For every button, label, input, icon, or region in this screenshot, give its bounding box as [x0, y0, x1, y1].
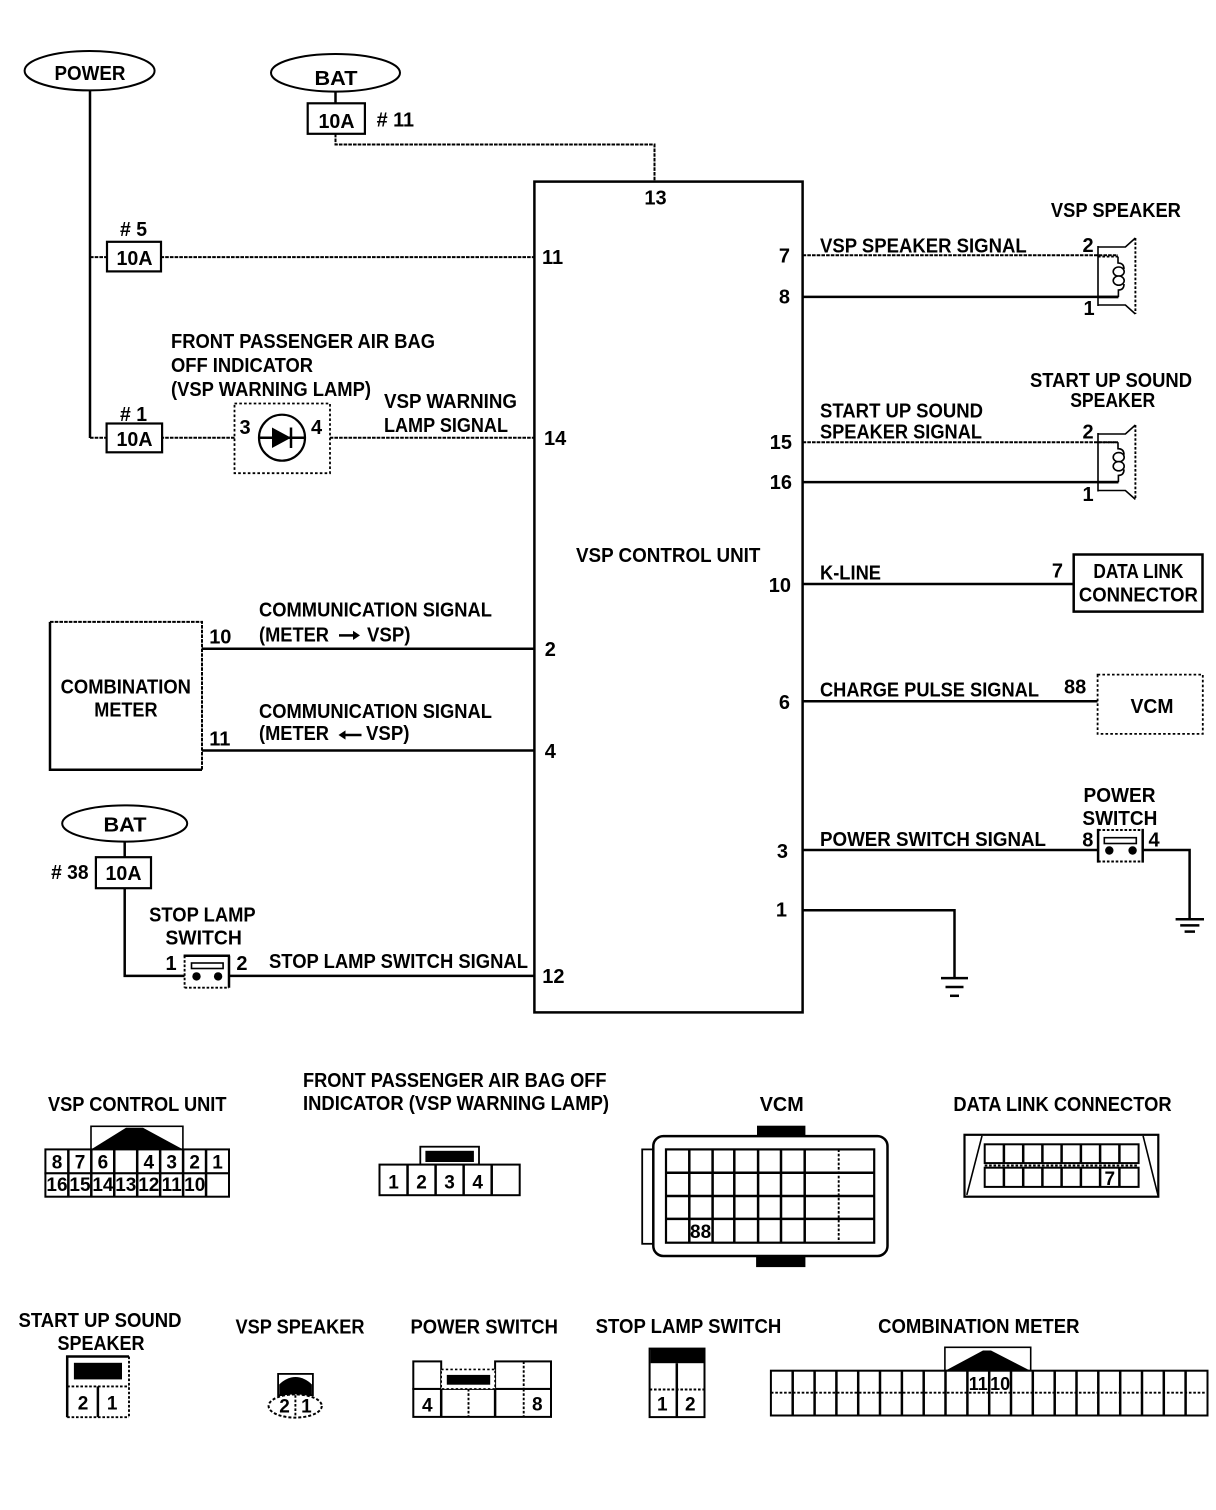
label FRONT PASSENGER AIR BAG OFF INDICATOR [171, 331, 435, 401]
svg-text:12: 12 [542, 966, 564, 988]
label STOP LAMP SWITCH [149, 905, 256, 950]
svg-text:12: 12 [138, 1175, 159, 1196]
svg-text:1: 1 [1083, 298, 1094, 320]
svg-text:10: 10 [990, 1374, 1010, 1394]
pin numbers of start up speaker connector [78, 1394, 118, 1415]
svg-text:10A: 10A [117, 248, 153, 270]
svg-text:DATA LINK CONNECTOR: DATA LINK CONNECTOR [953, 1094, 1172, 1116]
wire BAT to fuse #11 [334, 92, 337, 104]
svg-text:FRONT PASSENGER AIR BAG: FRONT PASSENGER AIR BAG [171, 331, 435, 353]
svg-text:VSP WARNING: VSP WARNING [384, 391, 517, 413]
svg-text:1: 1 [1082, 484, 1093, 506]
svg-text:POWER: POWER [55, 63, 127, 85]
pin numbers of power switch connector [422, 1395, 543, 1417]
svg-text:CONNECTOR: CONNECTOR [1079, 585, 1199, 607]
wire stop lamp switch signal [229, 975, 534, 978]
svg-text:1: 1 [165, 953, 176, 975]
svg-text:6: 6 [779, 692, 790, 714]
label COMMUNICATION SIGNAL (METER from VSP) [259, 701, 492, 745]
fuse #11 10A [308, 103, 365, 134]
wire pin 3 to power switch [803, 849, 1099, 852]
speaker SP1 VSP speaker [1098, 238, 1135, 314]
connector start up sound speaker pinout [66, 1355, 129, 1417]
svg-text:# 38: # 38 [51, 862, 89, 884]
pin numbers of air bag indicator connector [388, 1173, 483, 1194]
svg-text:VSP SPEAKER SIGNAL: VSP SPEAKER SIGNAL [820, 236, 1027, 258]
wire communication signal meter to vsp [202, 648, 534, 651]
connector air bag off indicator pinout [380, 1147, 520, 1196]
wire pin 15 to start up speaker pin 2 [803, 441, 1118, 443]
svg-text:# 5: # 5 [120, 219, 147, 241]
svg-text:SPEAKER: SPEAKER [1070, 390, 1155, 412]
svg-text:10: 10 [209, 627, 231, 649]
pin numbers row 2 of VSP control unit connector [46, 1175, 205, 1196]
svg-text:VSP CONTROL UNIT: VSP CONTROL UNIT [576, 545, 760, 567]
svg-text:FRONT PASSENGER AIR BAG OFF: FRONT PASSENGER AIR BAG OFF [303, 1070, 607, 1092]
svg-text:K-LINE: K-LINE [820, 563, 881, 585]
label START UP SOUND SPEAKER (connector title) [19, 1310, 182, 1355]
speaker SP2 start up sound speaker [1098, 425, 1135, 499]
svg-text:START UP SOUND: START UP SOUND [820, 401, 983, 423]
op-amp U1 VSP CONTROL UNIT box [534, 182, 802, 1013]
svg-text:DATA LINK: DATA LINK [1093, 561, 1183, 583]
wire pin 1 to ground [803, 910, 955, 978]
label FRONT PASSENGER AIR BAG OFF INDICATOR (connector title) [303, 1070, 609, 1115]
svg-text:2: 2 [189, 1153, 200, 1174]
svg-text:4: 4 [472, 1173, 483, 1194]
wire fuse #38 to stop lamp switch [125, 888, 185, 976]
wire charge pulse signal [803, 700, 1098, 703]
svg-text:4: 4 [545, 741, 557, 763]
svg-text:STOP LAMP: STOP LAMP [149, 905, 256, 927]
svg-text:START UP SOUND: START UP SOUND [19, 1310, 182, 1332]
svg-text:BAT: BAT [315, 68, 358, 90]
node POWER [25, 51, 155, 90]
lamp D1 front passenger air bag off indicator [235, 404, 331, 474]
svg-text:10: 10 [184, 1175, 205, 1196]
connector stop lamp switch pinout [650, 1349, 705, 1418]
svg-text:VSP SPEAKER: VSP SPEAKER [1051, 200, 1182, 222]
wire communication signal vsp to meter [202, 749, 534, 752]
svg-text:7: 7 [1052, 561, 1063, 583]
fuse #5 10A [107, 242, 161, 272]
svg-text:4: 4 [422, 1396, 433, 1417]
svg-text:# 11: # 11 [377, 110, 415, 132]
svg-text:2: 2 [279, 1397, 290, 1418]
label START UP SOUND SPEAKER (right title) [1030, 370, 1192, 412]
svg-text:16: 16 [46, 1175, 67, 1196]
svg-text:2: 2 [78, 1394, 89, 1415]
svg-text:POWER SWITCH: POWER SWITCH [411, 1317, 558, 1339]
svg-text:VSP): VSP) [366, 723, 410, 745]
svg-text:BAT: BAT [104, 815, 147, 837]
svg-text:START UP SOUND: START UP SOUND [1030, 370, 1192, 392]
connector VSP CONTROL UNIT pinout [45, 1126, 229, 1196]
svg-text:8: 8 [1082, 830, 1093, 852]
ground (power switch) [1176, 919, 1204, 931]
svg-text:15: 15 [770, 432, 792, 454]
svg-text:1: 1 [776, 900, 787, 922]
svg-text:11: 11 [209, 729, 230, 751]
svg-text:13: 13 [644, 188, 666, 210]
svg-text:10: 10 [769, 575, 791, 597]
svg-text:88: 88 [690, 1222, 711, 1243]
svg-text:LAMP SIGNAL: LAMP SIGNAL [384, 415, 508, 437]
connector VSP speaker pinout [269, 1374, 322, 1418]
connector data link pinout [965, 1135, 1159, 1197]
node BAT (lower) [62, 805, 187, 841]
svg-text:3: 3 [444, 1173, 455, 1194]
svg-text:1: 1 [212, 1153, 223, 1174]
label VSP WARNING LAMP SIGNAL [384, 391, 517, 437]
svg-text:(VSP WARNING LAMP): (VSP WARNING LAMP) [171, 379, 371, 401]
wire BAT to fuse #38 [123, 842, 126, 859]
svg-text:SWITCH: SWITCH [1082, 808, 1157, 830]
pin numbers of stop lamp switch connector [657, 1395, 696, 1416]
svg-text:1: 1 [107, 1394, 118, 1415]
svg-text:STOP LAMP SWITCH SIGNAL: STOP LAMP SWITCH SIGNAL [269, 951, 528, 973]
svg-text:11: 11 [162, 1175, 183, 1196]
svg-text:COMMUNICATION SIGNAL: COMMUNICATION SIGNAL [259, 600, 492, 622]
node VCM [1098, 675, 1203, 734]
pin numbers row 1 of VSP control unit connector [52, 1153, 224, 1174]
ground (pin 1) [941, 978, 968, 996]
svg-text:4: 4 [144, 1153, 155, 1174]
svg-text:2: 2 [685, 1395, 696, 1416]
svg-text:METER: METER [94, 700, 158, 722]
wire pin 8 to VSP speaker pin 1 [803, 296, 1119, 299]
svg-text:7: 7 [75, 1153, 86, 1174]
wire pin 16 to start up speaker pin 1 [803, 481, 1119, 484]
switch SW1 power switch [1098, 829, 1143, 863]
svg-text:COMMUNICATION SIGNAL: COMMUNICATION SIGNAL [259, 701, 492, 723]
connector combination meter pinout [771, 1347, 1208, 1415]
connector VCM pinout [642, 1126, 887, 1267]
pin numbers of VSP speaker connector [279, 1397, 312, 1418]
svg-text:1: 1 [388, 1173, 399, 1194]
node DATA LINK CONNECTOR [1074, 555, 1203, 612]
svg-text:1: 1 [657, 1395, 668, 1416]
svg-text:8: 8 [52, 1153, 63, 1174]
svg-text:SWITCH: SWITCH [165, 928, 242, 950]
fuse #1 10A [107, 424, 163, 453]
svg-text:3: 3 [777, 841, 788, 863]
svg-text:2: 2 [236, 953, 247, 975]
svg-text:13: 13 [115, 1175, 136, 1196]
svg-text:8: 8 [779, 287, 790, 309]
wire fuse #1 / warning lamp row [90, 437, 534, 439]
label COMMUNICATION SIGNAL (METER to VSP) [259, 600, 492, 647]
svg-text:VSP CONTROL UNIT: VSP CONTROL UNIT [48, 1094, 227, 1116]
svg-text:2: 2 [545, 639, 556, 661]
svg-text:INDICATOR (VSP WARNING LAMP): INDICATOR (VSP WARNING LAMP) [303, 1093, 609, 1115]
svg-text:14: 14 [544, 428, 567, 450]
svg-text:COMBINATION: COMBINATION [61, 677, 191, 699]
label START UP SOUND SPEAKER SIGNAL [820, 401, 983, 444]
svg-text:16: 16 [770, 472, 792, 494]
wire power switch to ground [1143, 850, 1190, 919]
svg-text:STOP LAMP SWITCH: STOP LAMP SWITCH [596, 1316, 782, 1338]
svg-text:11: 11 [969, 1374, 988, 1394]
svg-text:88: 88 [1064, 676, 1086, 698]
svg-text:(METER: (METER [259, 625, 329, 647]
svg-text:15: 15 [69, 1175, 91, 1196]
svg-text:OFF INDICATOR: OFF INDICATOR [171, 355, 314, 377]
svg-text:VCM: VCM [760, 1094, 804, 1116]
connector power switch pinout [413, 1361, 551, 1417]
svg-text:2: 2 [416, 1173, 427, 1194]
svg-text:7: 7 [779, 245, 790, 267]
svg-text:VSP): VSP) [367, 625, 411, 647]
node COMBINATION METER [50, 622, 202, 770]
svg-text:8: 8 [532, 1395, 543, 1416]
wire pin 7 to VSP speaker pin 2 [803, 254, 1118, 256]
svg-text:SPEAKER SIGNAL: SPEAKER SIGNAL [820, 422, 982, 444]
svg-text:POWER SWITCH SIGNAL: POWER SWITCH SIGNAL [820, 829, 1046, 851]
svg-text:10A: 10A [117, 429, 153, 451]
svg-text:3: 3 [166, 1153, 177, 1174]
svg-text:11: 11 [542, 247, 563, 269]
wire fuse #5 row [90, 256, 534, 258]
svg-text:# 1: # 1 [120, 404, 147, 426]
wire fuse #11 to pin 13 [336, 134, 655, 182]
svg-text:SPEAKER: SPEAKER [58, 1333, 145, 1355]
svg-text:6: 6 [98, 1153, 109, 1174]
svg-text:2: 2 [1082, 235, 1093, 257]
svg-text:COMBINATION METER: COMBINATION METER [878, 1316, 1080, 1338]
pin numbers of combination meter connector [969, 1374, 1010, 1394]
wire K-LINE [803, 583, 1074, 586]
svg-text:VSP SPEAKER: VSP SPEAKER [236, 1317, 366, 1339]
svg-text:10A: 10A [106, 863, 142, 885]
svg-text:POWER: POWER [1084, 785, 1157, 807]
svg-text:(METER: (METER [259, 723, 329, 745]
node BAT (top) [271, 54, 400, 92]
svg-text:4: 4 [1149, 830, 1161, 852]
svg-text:14: 14 [92, 1175, 114, 1196]
svg-text:VCM: VCM [1131, 696, 1174, 718]
svg-text:4: 4 [311, 417, 323, 439]
svg-text:2: 2 [1082, 422, 1093, 444]
svg-text:CHARGE PULSE SIGNAL: CHARGE PULSE SIGNAL [820, 680, 1039, 702]
wire POWER vertical bus [89, 90, 92, 438]
svg-text:10A: 10A [319, 111, 355, 133]
label POWER SWITCH [1082, 785, 1157, 830]
svg-text:7: 7 [1105, 1169, 1116, 1190]
fuse #38 10A [96, 857, 151, 888]
switch SW2 stop lamp switch [184, 956, 230, 988]
svg-text:1: 1 [301, 1397, 312, 1418]
svg-text:3: 3 [239, 417, 250, 439]
